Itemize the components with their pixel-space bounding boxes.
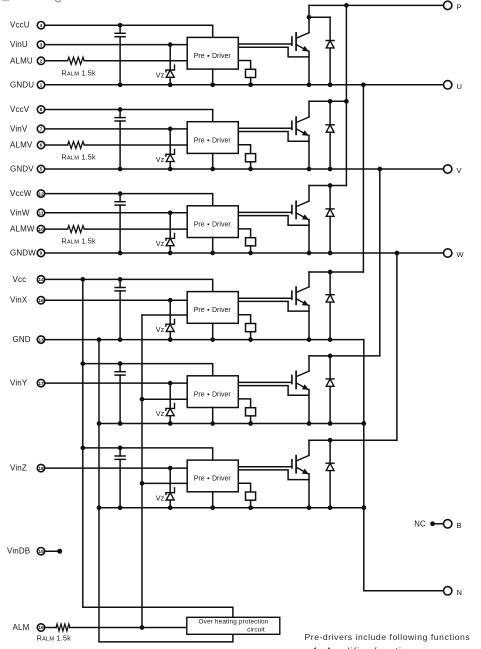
svg-text:ALMU: ALMU <box>10 56 33 65</box>
svg-text:ALMW: ALMW <box>10 225 35 234</box>
svg-text:19: 19 <box>38 625 44 631</box>
svg-text:11: 11 <box>38 211 43 217</box>
svg-text:ALM: ALM <box>13 623 30 632</box>
svg-text:VinZ: VinZ <box>10 464 27 473</box>
svg-text:9: 9 <box>40 251 43 257</box>
svg-text:12: 12 <box>38 191 44 197</box>
svg-text:NC: NC <box>414 520 426 529</box>
svg-text:B: B <box>457 521 462 530</box>
svg-text:VinDB: VinDB <box>7 547 30 556</box>
svg-text:GNDV: GNDV <box>10 165 34 174</box>
svg-text:Pre ▪ Driver: Pre ▪ Driver <box>194 53 232 60</box>
svg-text:Vz: Vz <box>156 71 165 80</box>
svg-text:RALM 1.5k: RALM 1.5k <box>62 68 96 77</box>
svg-text:W: W <box>457 250 465 259</box>
svg-text:Vz: Vz <box>156 325 165 334</box>
svg-text:RALM 1.5k: RALM 1.5k <box>37 633 71 642</box>
svg-text:10: 10 <box>38 227 44 233</box>
svg-text:7: 7 <box>40 127 43 133</box>
svg-text:VinW: VinW <box>10 208 30 217</box>
svg-text:4: 4 <box>40 23 43 29</box>
svg-text:RALM 1.5k: RALM 1.5k <box>62 153 96 162</box>
svg-text:6: 6 <box>40 143 43 149</box>
svg-text:GNDU: GNDU <box>10 80 34 89</box>
svg-text:VccW: VccW <box>10 189 32 198</box>
svg-text:V: V <box>457 166 462 175</box>
svg-text:Pre-drivers include following: Pre-drivers include following functions <box>305 632 471 642</box>
svg-text:Over heating protection: Over heating protection <box>199 618 269 625</box>
svg-text:GND: GND <box>13 335 31 344</box>
svg-text:RALM 1.5k: RALM 1.5k <box>62 237 96 246</box>
svg-text:Vcc: Vcc <box>13 275 27 284</box>
svg-text:14: 14 <box>38 277 44 283</box>
svg-text:VinX: VinX <box>10 296 28 305</box>
svg-text:Vz: Vz <box>156 155 165 164</box>
svg-text:VccV: VccV <box>10 105 30 114</box>
svg-text:17: 17 <box>38 381 44 387</box>
svg-text:13: 13 <box>38 337 44 343</box>
svg-text:5: 5 <box>40 167 43 173</box>
svg-text:3: 3 <box>40 42 43 48</box>
svg-text:2: 2 <box>40 59 43 65</box>
svg-text:VinU: VinU <box>10 40 28 49</box>
svg-text:U: U <box>457 82 463 91</box>
svg-text:Vz: Vz <box>156 493 165 502</box>
svg-text:15: 15 <box>38 549 44 555</box>
svg-text:circuit: circuit <box>247 626 265 633</box>
svg-text:VinY: VinY <box>10 379 28 388</box>
svg-text:VccU: VccU <box>10 21 30 30</box>
svg-text:8: 8 <box>40 107 43 113</box>
svg-text:ALMV: ALMV <box>10 141 33 150</box>
svg-text:Pre ▪ Driver: Pre ▪ Driver <box>194 476 232 483</box>
svg-text:VinV: VinV <box>10 124 28 133</box>
svg-text:P: P <box>457 2 462 11</box>
svg-text:16: 16 <box>38 298 44 304</box>
svg-text:Vz: Vz <box>156 409 165 418</box>
svg-text:Pre ▪ Driver: Pre ▪ Driver <box>194 391 232 398</box>
svg-text:Pre ▪ Driver: Pre ▪ Driver <box>194 137 232 144</box>
svg-text:N: N <box>457 588 463 597</box>
svg-text:1: 1 <box>40 83 43 89</box>
svg-text:18: 18 <box>38 466 44 472</box>
svg-text:Pre ▪ Driver: Pre ▪ Driver <box>194 221 232 228</box>
svg-text:GNDW: GNDW <box>10 249 36 258</box>
svg-text:Vz: Vz <box>156 239 165 248</box>
svg-text:Pre ▪ Driver: Pre ▪ Driver <box>194 307 232 314</box>
